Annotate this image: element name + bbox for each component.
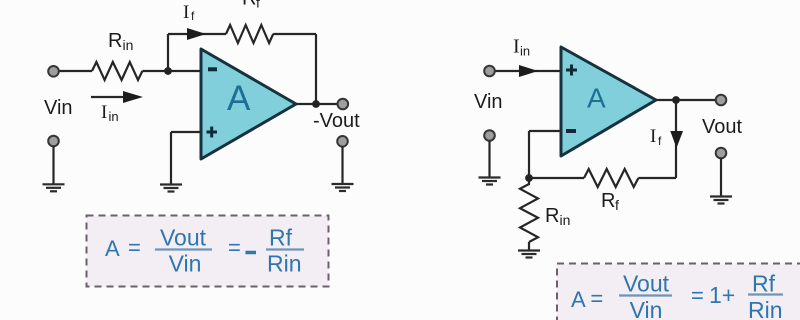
svg-text:=: = [691,283,704,308]
svg-text:=: = [128,235,141,260]
svg-text:A: A [227,79,251,118]
svg-text:in: in [520,44,530,59]
svg-text:I: I [650,126,656,147]
svg-text:A: A [587,83,606,114]
svg-text:I: I [513,36,520,58]
svg-text:Rf: Rf [752,271,776,297]
svg-text:R: R [108,30,122,52]
svg-text:R: R [601,190,615,212]
svg-text:I: I [101,102,107,123]
svg-text:f: f [615,197,619,213]
svg-text:in: in [560,212,571,228]
svg-text:=: = [228,235,241,260]
svg-text:R: R [545,205,559,227]
svg-text:A: A [571,287,586,312]
svg-text:Rin: Rin [748,297,783,320]
svg-text:Vin: Vin [44,97,73,119]
svg-text:Vin: Vin [630,297,663,320]
svg-text:f: f [256,0,260,11]
svg-text:R: R [242,0,256,10]
svg-text:A: A [105,236,120,261]
svg-text:-Vout: -Vout [313,110,360,132]
svg-text:Vin: Vin [169,251,202,277]
svg-text:f: f [658,134,662,148]
svg-text:I: I [183,2,189,23]
svg-text:Vout: Vout [160,225,207,251]
svg-text:Rin: Rin [267,251,302,277]
svg-text:Vin: Vin [474,91,503,113]
svg-text:Vout: Vout [623,271,670,297]
svg-text:1+: 1+ [709,282,735,308]
svg-text:Vout: Vout [702,116,742,138]
svg-text:in: in [123,37,134,53]
svg-text:f: f [191,9,195,23]
svg-text:=: = [590,286,603,311]
svg-text:in: in [109,109,119,124]
svg-text:Rf: Rf [269,225,293,251]
